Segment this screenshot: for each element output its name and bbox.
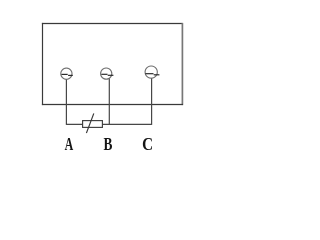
bottom wire (66, 123, 151, 125)
svg-text:A: A (65, 135, 74, 155)
terminal C (145, 66, 159, 78)
terminal B (101, 68, 114, 79)
wire A lead (65, 79, 67, 125)
terminal A (61, 68, 73, 79)
wire B lead (108, 78, 110, 125)
resistor R (slashed box) (83, 113, 103, 133)
svg-text:B: B (104, 135, 113, 154)
labels group (65, 134, 153, 155)
terminal block body (42, 23, 183, 105)
svg-text:C: C (142, 134, 153, 154)
wire C lead (151, 78, 153, 125)
